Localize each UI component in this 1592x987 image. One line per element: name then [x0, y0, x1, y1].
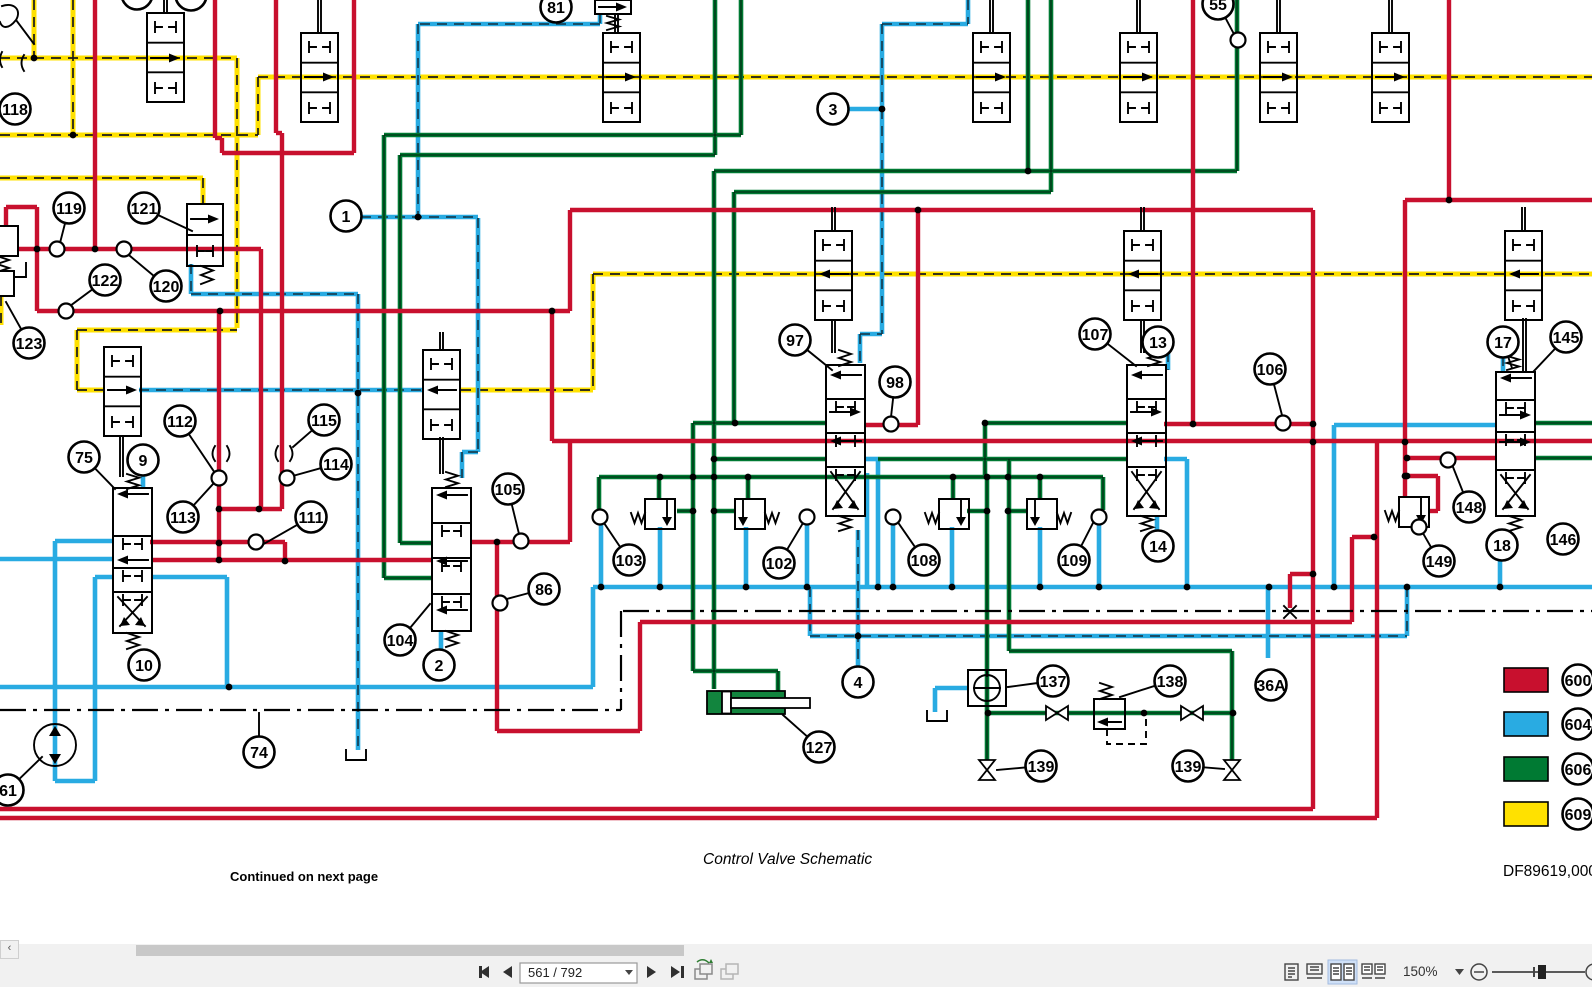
svg-text:1: 1	[342, 209, 351, 226]
svg-text:115: 115	[311, 413, 337, 430]
svg-text:148: 148	[1456, 500, 1483, 517]
svg-text:108: 108	[911, 553, 938, 570]
svg-text:139: 139	[1175, 759, 1202, 776]
svg-text:9: 9	[139, 453, 148, 470]
svg-text:97: 97	[786, 333, 804, 350]
svg-text:17: 17	[1494, 335, 1512, 352]
svg-text:75: 75	[75, 450, 93, 467]
svg-text:109: 109	[1061, 553, 1088, 570]
svg-text:105: 105	[495, 482, 522, 499]
svg-text:106: 106	[1257, 362, 1284, 379]
svg-text:119: 119	[56, 201, 82, 218]
svg-text:600: 600	[1565, 673, 1592, 690]
svg-text:74: 74	[250, 745, 268, 762]
svg-text:150%: 150%	[1403, 964, 1438, 979]
svg-text:98: 98	[886, 375, 904, 392]
svg-text:10: 10	[135, 658, 153, 675]
svg-text:606: 606	[1565, 762, 1592, 779]
svg-text:4: 4	[854, 675, 863, 692]
svg-text:113: 113	[170, 510, 196, 527]
svg-text:13: 13	[1149, 335, 1167, 352]
svg-text:123: 123	[16, 336, 43, 353]
svg-text:604: 604	[1565, 717, 1592, 734]
svg-text:2: 2	[435, 658, 444, 675]
svg-text:36A: 36A	[1256, 678, 1286, 695]
svg-text:107: 107	[1082, 327, 1109, 344]
svg-text:145: 145	[1553, 330, 1580, 347]
svg-text:120: 120	[153, 279, 180, 296]
svg-text:61: 61	[0, 783, 17, 800]
svg-text:112: 112	[167, 414, 193, 431]
svg-text:3: 3	[829, 102, 838, 119]
svg-text:103: 103	[616, 553, 643, 570]
svg-text:118: 118	[2, 102, 28, 119]
svg-text:146: 146	[1550, 532, 1577, 549]
svg-text:609: 609	[1565, 807, 1592, 824]
svg-text:104: 104	[387, 633, 414, 650]
svg-text:102: 102	[766, 556, 793, 573]
svg-text:139: 139	[1028, 759, 1055, 776]
svg-text:86: 86	[535, 582, 553, 599]
svg-text:55: 55	[1209, 0, 1227, 14]
svg-text:Control Valve Schematic: Control Valve Schematic	[703, 851, 872, 868]
svg-text:DF89619,00001: DF89619,00001	[1503, 863, 1592, 880]
svg-text:18: 18	[1493, 538, 1511, 555]
svg-text:122: 122	[92, 273, 119, 290]
svg-text:111: 111	[299, 510, 324, 527]
svg-text:14: 14	[1149, 539, 1167, 556]
svg-text:81: 81	[547, 0, 565, 17]
svg-text:114: 114	[323, 457, 349, 474]
svg-text:Continued on next page: Continued on next page	[230, 869, 378, 884]
svg-text:121: 121	[131, 201, 158, 218]
svg-text:127: 127	[806, 740, 833, 757]
svg-text:149: 149	[1426, 554, 1453, 571]
svg-text:137: 137	[1040, 674, 1067, 691]
svg-text:561 / 792: 561 / 792	[528, 965, 582, 980]
svg-text:138: 138	[1157, 674, 1184, 691]
